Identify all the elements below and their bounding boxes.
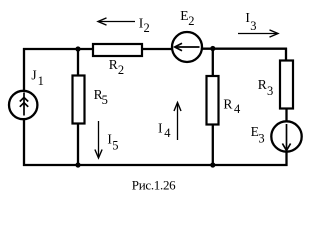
wire R2 to E2 [142,48,173,50]
label I3 [245,10,256,33]
wire R4 branch upper [212,49,214,77]
svg-text:5: 5 [112,138,118,152]
svg-text:2: 2 [188,14,194,28]
svg-text:R: R [258,77,267,92]
label E3 [251,124,265,145]
node junction R4 bottom [210,162,215,167]
label R2 [109,57,124,77]
resistor R4 [207,76,219,125]
svg-text:3: 3 [250,19,256,33]
svg-text:R: R [109,57,118,72]
label R3 [258,77,273,98]
svg-text:4: 4 [164,126,171,140]
svg-text:3: 3 [267,84,273,98]
node junction R4 top [210,46,215,51]
label E2 [180,8,194,28]
svg-text:R: R [223,97,232,112]
label R4 [223,97,241,117]
wire left branch lower [23,119,25,166]
wire bottom rail [23,164,288,166]
svg-text:1: 1 [38,74,44,88]
label R5 [94,87,108,107]
resistor R2 [93,44,142,56]
wire R4 branch lower [212,124,214,165]
current arrow I3 [238,30,278,37]
wire R5 branch lower [77,123,79,165]
svg-text:Рис.1.26: Рис.1.26 [132,178,176,193]
svg-text:4: 4 [234,102,241,116]
wire E2 to top-right corner [201,48,287,50]
wire R5 branch upper [77,49,79,76]
resistor R3 [280,61,293,109]
label I2 [139,15,150,35]
svg-text:3: 3 [258,132,264,146]
wire left branch upper [23,48,25,92]
wire R3 to E3 [285,108,287,123]
EMF source E3 [271,121,301,151]
EMF source E2 [172,32,202,62]
label I4 [158,121,171,140]
label J1 [31,68,43,89]
svg-text:J: J [31,68,36,83]
wire top-right corner down to R3 [285,48,287,61]
current arrow I5 [95,121,102,158]
current arrow I2 [98,18,135,25]
svg-text:I: I [158,121,163,136]
svg-text:2: 2 [118,63,124,77]
node junction R5 top [75,46,80,51]
current arrow I4 [174,103,181,141]
node junction R5 bottom [75,162,80,167]
current source J1 [9,91,37,119]
wire E3 to bottom rail [285,150,287,166]
resistor R5 [73,76,85,124]
label I5 [107,132,118,153]
svg-text:5: 5 [102,93,108,107]
svg-text:2: 2 [144,21,150,35]
wire top rail left segment [23,48,93,50]
